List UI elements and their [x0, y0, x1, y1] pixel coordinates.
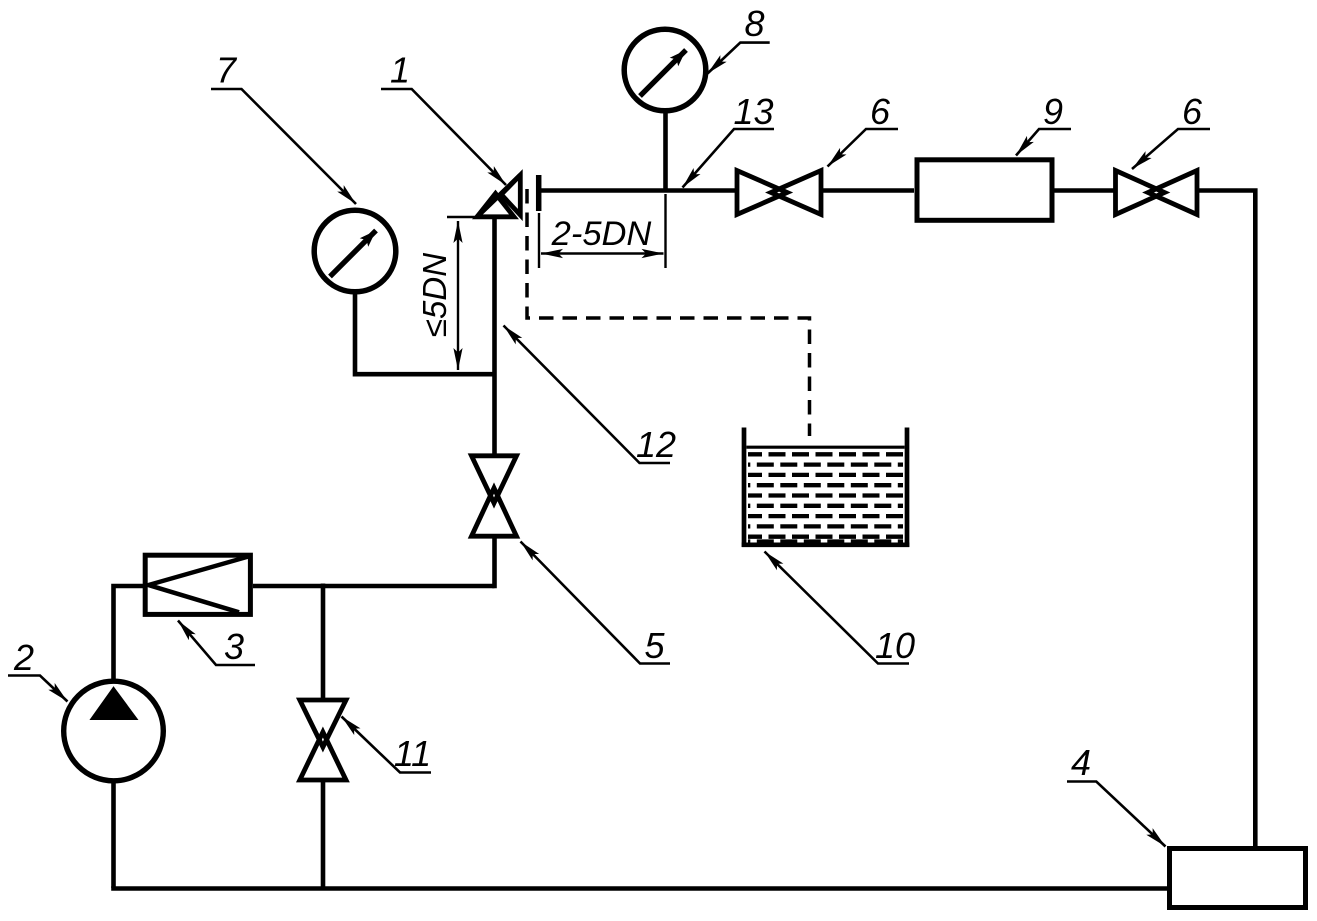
label 6 left: [828, 91, 899, 167]
pipe: gauge 7 connection: [355, 290, 494, 374]
dimension text <=5DN: [416, 253, 453, 337]
svg-text:10: 10: [875, 625, 915, 666]
label 11: [342, 717, 432, 775]
dimension extension line below node 13: [664, 194, 666, 268]
valve 11: [300, 700, 346, 780]
label 4: [1067, 742, 1166, 847]
dimension extension line below flange: [538, 213, 540, 268]
filter 3 body: [145, 555, 250, 614]
dimension text 2-5DN: [551, 215, 652, 253]
safety valve 1: side triangle: [501, 175, 520, 215]
svg-text:2-5DN: 2-5DN: [551, 215, 652, 253]
svg-text:6: 6: [1182, 91, 1203, 132]
safety valve 1: seat diagonal: [477, 175, 520, 217]
box 9 (test device): [917, 160, 1052, 221]
pipe: bottom return line: [111, 886, 1167, 891]
svg-text:8: 8: [744, 3, 764, 44]
svg-text:4: 4: [1071, 742, 1091, 783]
svg-text:3: 3: [224, 626, 244, 667]
tank 10 water surface: [746, 446, 904, 449]
tank 10 left wall: [742, 428, 747, 548]
label 8: [708, 3, 770, 74]
pipe: gauge 8 stem: [663, 109, 668, 193]
pressure gauge 7 body: [314, 210, 396, 292]
label 1: [381, 50, 506, 186]
label 5: [521, 542, 671, 667]
svg-text:7: 7: [216, 50, 238, 91]
svg-text:≤5DN: ≤5DN: [416, 253, 453, 337]
dashed discharge route 12: [527, 189, 810, 436]
blind flange bar at test line inlet: [536, 175, 542, 211]
tank 10 right wall: [905, 428, 910, 548]
label 6 right: [1132, 91, 1210, 169]
valve 5: [472, 456, 517, 536]
label 9: [1016, 91, 1071, 156]
pipe: pump outlet riser to filter: [114, 586, 145, 679]
svg-text:5: 5: [644, 625, 665, 666]
svg-text:9: 9: [1043, 91, 1063, 132]
safety valve 1: lower triangle: [477, 194, 514, 217]
pipe: pump inlet down to bottom line: [111, 781, 116, 888]
tank 10 bottom: [742, 542, 910, 547]
label 3: [178, 621, 255, 668]
label 2: [8, 637, 68, 702]
dimension extension line at valve base: [447, 216, 478, 218]
pipe: filter to main riser: [253, 584, 495, 589]
pressure gauge 8 body: [624, 29, 706, 111]
label 12: [504, 326, 677, 466]
pressure gauge 7 needle: [330, 231, 376, 277]
box 4 (supply tank): [1170, 849, 1306, 908]
label 7: [211, 50, 356, 205]
label 13: [683, 91, 775, 188]
valve 6 (left, after node 13): [737, 171, 821, 215]
svg-text:11: 11: [394, 733, 431, 774]
tank 10 water hatching: [748, 454, 903, 541]
pressure gauge 8 needle: [640, 50, 686, 96]
svg-text:1: 1: [390, 50, 410, 91]
svg-text:2: 2: [13, 637, 34, 678]
filter 3 element diagonals: [149, 557, 249, 613]
pipe: top header from blind flange to right corner and down to box 4: [538, 188, 1255, 848]
pipe: main riser below valve 5: [492, 536, 497, 588]
pipe: bypass branch through valve 11: [321, 584, 326, 889]
svg-text:12: 12: [636, 424, 676, 465]
dimension line 2-5DN: [541, 252, 664, 254]
pump 2 body: [64, 681, 164, 781]
svg-text:6: 6: [870, 91, 891, 132]
label 10: [765, 552, 916, 667]
pump 2 rotor triangle: [90, 687, 137, 720]
pipe: main riser valve 1 to valve 5: [492, 215, 497, 456]
dimension line <=5DN: [457, 221, 459, 370]
valve 6 (right, after box 9): [1116, 171, 1198, 215]
svg-text:13: 13: [733, 91, 773, 132]
